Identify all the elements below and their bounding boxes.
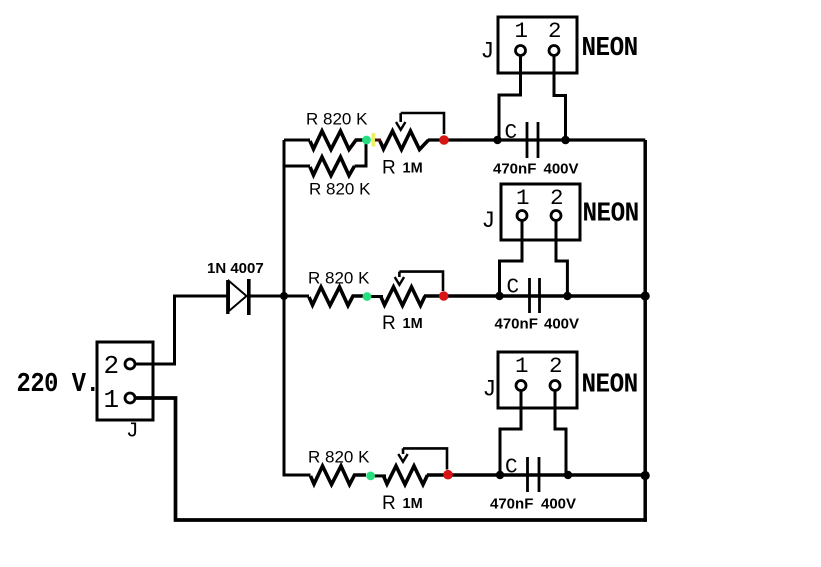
yellow mark (top) <box>372 133 376 147</box>
connector J NEON 1 box <box>498 17 577 73</box>
svg-text:J: J <box>483 377 497 403</box>
pin 2 circle (neon2) <box>551 211 561 221</box>
pot arrow head (middle) <box>395 277 404 285</box>
resistor R 820 K (top, first) <box>310 131 363 150</box>
pin 1 circle (neon3) <box>516 381 526 391</box>
wire: 220V pin2 to diode anode <box>130 296 227 364</box>
svg-text:R 820 K: R 820 K <box>306 110 368 129</box>
node: red wiper junction (top) <box>439 135 449 145</box>
svg-text:2: 2 <box>550 185 564 211</box>
pin 1 circle (neon2) <box>517 211 527 221</box>
svg-text:R: R <box>382 493 396 514</box>
node: cap left junction (third) <box>496 471 504 479</box>
wire: neon1 pin wires <box>499 51 566 141</box>
svg-text:1M: 1M <box>403 161 423 177</box>
node: cap right junction (top) <box>561 136 570 145</box>
wire: neon2 pin wires <box>500 216 568 297</box>
wire: pot wiper bracket (third) <box>403 448 447 469</box>
wire: green tap to pot (third) <box>370 474 386 477</box>
svg-text:220 V.: 220 V. <box>17 369 100 400</box>
wire: dark red stub (top) <box>375 139 381 142</box>
svg-text:C: C <box>505 122 518 145</box>
node: green wiper tap (middle) <box>363 292 372 301</box>
svg-text:C: C <box>505 457 518 480</box>
resistor R 820 K (third) <box>311 466 367 485</box>
capacitor C 470nF (middle) plates <box>530 278 540 313</box>
node: cap left junction (top) <box>493 136 501 144</box>
svg-text:470nF: 470nF <box>495 316 538 333</box>
pot arrow head (top) <box>396 122 405 130</box>
wire: pot to right bus (middle) <box>424 294 647 297</box>
node: bus junction (middle) <box>641 291 650 300</box>
wire: left vertical bus <box>283 140 286 475</box>
svg-text:R: R <box>382 158 396 179</box>
svg-text:R 820 K: R 820 K <box>309 180 371 199</box>
svg-text:1: 1 <box>516 185 530 211</box>
pin 1 circle (neon1) <box>516 46 526 56</box>
svg-text:1M: 1M <box>403 496 423 512</box>
svg-text:2: 2 <box>104 351 120 381</box>
capacitor C 470nF (third) plates <box>528 457 540 492</box>
svg-text:1M: 1M <box>403 316 423 332</box>
diode D1 1N4007 <box>228 279 249 315</box>
capacitor C 470nF (top) plates <box>527 122 538 158</box>
wire: left bus corner to resistor (third) <box>283 474 311 477</box>
wire: green tap to pot (middle) <box>367 295 383 298</box>
svg-text:R 820 K: R 820 K <box>308 448 370 467</box>
node: bus junction (third) <box>641 471 650 480</box>
svg-text:1: 1 <box>515 353 529 379</box>
svg-text:R 820 K: R 820 K <box>308 269 370 288</box>
node: red wiper junction (third) <box>443 470 453 480</box>
svg-text:R: R <box>382 313 396 334</box>
svg-text:400V: 400V <box>544 316 579 333</box>
node: cap right junction (middle) <box>563 292 571 300</box>
pin 2 circle (220V) <box>125 359 135 369</box>
node: cap right junction (third) <box>564 471 572 479</box>
connector J 220V box <box>97 342 153 420</box>
svg-text:2: 2 <box>548 18 562 44</box>
svg-text:400V: 400V <box>544 161 579 178</box>
svg-text:470nF: 470nF <box>493 161 536 178</box>
potentiometer R 1M (middle) <box>381 287 425 306</box>
svg-text:1N 4007: 1N 4007 <box>207 260 264 277</box>
svg-text:J: J <box>482 208 496 234</box>
svg-text:2: 2 <box>549 353 563 379</box>
node: green wiper tap (top) <box>362 136 371 145</box>
wire: diode cathode to middle resistor <box>250 295 309 298</box>
pin 2 circle (neon3) <box>550 381 560 391</box>
wire: pot to right bus (third) <box>427 473 647 476</box>
svg-text:470nF: 470nF <box>490 496 533 513</box>
connector J NEON 3 box <box>498 352 577 408</box>
svg-text:C: C <box>507 277 520 300</box>
svg-text:NEON: NEON <box>582 369 638 399</box>
wire: bracket for parallel resistors <box>284 140 366 166</box>
svg-text:J: J <box>126 421 139 444</box>
potentiometer R 1M (third) <box>384 466 428 485</box>
pin 1 circle (220V) <box>125 393 135 403</box>
svg-text:1: 1 <box>515 18 529 44</box>
wire: right vertical bus <box>643 140 647 522</box>
pot arrow head (third) <box>398 454 407 462</box>
wire: pot wiper bracket (top) <box>401 113 444 134</box>
wire: pot wiper bracket (middle) <box>399 272 443 291</box>
connector J NEON 2 box <box>501 184 580 240</box>
wire: neon3 pin wires <box>500 386 566 476</box>
svg-text:1: 1 <box>104 385 120 415</box>
svg-text:NEON: NEON <box>582 33 638 63</box>
wire: pot to right bus (top) <box>428 138 645 141</box>
node: green wiper tap (third) <box>366 472 375 481</box>
resistor R 820 K (top, second parallel) <box>310 157 355 176</box>
svg-text:J: J <box>481 39 495 65</box>
svg-text:NEON: NEON <box>583 198 639 228</box>
node: cap left junction (middle) <box>495 292 503 300</box>
wire: 220V pin1 to bottom bus <box>130 398 647 520</box>
potentiometer R 1M (top) <box>380 131 429 150</box>
node: red wiper junction (middle) <box>439 291 449 301</box>
resistor R 820 K (middle) <box>309 287 363 306</box>
pin 2 circle (neon1) <box>549 46 559 56</box>
node: junction left bus / diode <box>280 292 288 300</box>
svg-text:400V: 400V <box>541 496 576 513</box>
